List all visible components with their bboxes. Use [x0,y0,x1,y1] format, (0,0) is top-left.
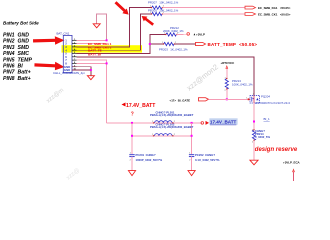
wire gate [209,98,250,100]
svg-text:design reserve: design reserve [255,147,298,153]
wire pin2 GND [77,43,107,45]
svg-text:PC202 CHNG?: PC202 CHNG? [195,153,215,157]
resistor PR212 [163,26,184,36]
svg-text:SMC: SMC [18,51,30,57]
pin numbers tiny [130,6,255,162]
wire pin1 GND [77,39,107,41]
junction pin10 [90,69,92,71]
svg-text:BI_1: BI_1 [264,117,271,121]
wire pin9/10 GND [72,67,91,76]
svg-text:?: ? [131,111,134,117]
junction PL202 left [131,135,133,137]
red arrow annotation 4 [142,16,154,26]
svg-text:EC_SMB_CK1 <50.05>: EC_SMB_CK1 <50.05> [258,13,291,17]
wire PR203 to port [174,43,195,45]
svg-text:BAT_CN1: BAT_CN1 [57,31,70,35]
net label +17.4V_BATT (highlighted) [206,118,238,125]
junction rail right [191,122,193,124]
resistor PR205 [148,8,179,15]
no-ERC circle rail end [201,122,204,125]
svg-text:GND: GND [18,33,30,39]
svg-text:PIN1: PIN1 [3,33,15,39]
ground (PR214) [250,160,258,165]
ground (PC201) [128,171,135,176]
wire pin6 BI to Q drain [77,57,255,96]
wire TEMP branch to PR203 [150,43,164,45]
connector pin numbers [74,39,77,71]
junction pin1 gnd riser [106,39,108,41]
svg-text:+RTCVCC: +RTCVCC [221,61,236,65]
red arrow annotation 1 [33,36,65,45]
svg-text:100K_0402_1%: 100K_0402_1% [232,83,253,87]
power +RTCVCC [221,61,236,78]
svg-text:200K_0402_1%: 200K_0402_1% [163,29,184,33]
capacitor PC202 [189,153,220,171]
pin list [3,33,32,82]
red arrow annotation 3 [115,1,129,14]
junction PL202 right [191,135,193,137]
svg-text:BATT_TEMP <50.05>: BATT_TEMP <50.05> [208,42,258,47]
wire pin5 TEMP [77,35,166,54]
port BI_GATE [170,98,209,103]
junction gate [226,98,228,100]
gate pin mark [248,98,250,100]
junction rail left [131,122,133,124]
svg-text:Batt+: Batt+ [18,76,31,82]
svg-text:1000P_0402_50V?%: 1000P_0402_50V?% [136,158,163,162]
svg-text:BI: BI [18,64,24,70]
svg-text:+3VLP_ECA: +3VLP_ECA [283,161,301,165]
port BATT_TEMP [196,42,258,47]
connector pin names [64,38,70,72]
wire PR212 to +3VLP [177,33,187,35]
port EC_SMB_CK1 [245,13,291,17]
wire pin8 Batt+ [77,62,107,64]
junction BI_1 [253,121,255,123]
no-ERC circle [187,33,190,36]
red annotation +17.4V_BATT [122,103,157,110]
inductor PL202 [150,122,194,136]
svg-text:BATT_BI: BATT_BI [88,52,101,56]
svg-text:Battery Bot Side: Battery Bot Side [3,21,39,26]
svg-text:PR203 1K_0402_1%: PR203 1K_0402_1% [159,48,188,52]
resistor PR207 [148,1,179,10]
resistor PR213 100K [225,78,253,99]
transistor PQ204 [250,94,290,104]
wire Q source down [253,103,255,130]
capacitor PC201 [129,153,162,171]
svg-text:PIN8: PIN8 [3,76,15,82]
wire pin4 SMC net EC_SMB_CK1 [77,14,152,50]
wire right parallel drop [191,123,193,154]
yellow net highlight [62,45,143,52]
svg-text:PBSA-L(1.5)-2D(2X8-800_BABET: PBSA-L(1.5)-2D(2X8-800_BABET [150,113,194,117]
svg-text:EC_SMB_DA1 <50.05>: EC_SMB_DA1 <50.05> [258,6,291,10]
+17.4V_BATT rail [107,122,202,124]
svg-text:PIN3: PIN3 [3,45,15,51]
wire left parallel drop [131,123,133,154]
svg-text:TEMP: TEMP [18,57,33,63]
svg-text:0.1U_0402_50V?%: 0.1U_0402_50V?% [195,158,220,162]
junction pin8 [106,62,108,64]
svg-text:CHLL_C0000BCMN_4pi: CHLL_C0000BCMN_4pi [53,71,85,75]
resistor PR203 [159,42,188,51]
svg-text:PC201 CHNG?: PC201 CHNG? [136,153,156,157]
net label BI_1 [264,117,271,121]
wire: gnd loop top-left [97,14,107,40]
svg-text:PIN4: PIN4 [3,51,15,57]
svg-text:Batt+: Batt+ [18,70,31,76]
svg-text:SMD: SMD [18,45,30,51]
svg-text:0_0402_5%: 0_0402_5% [255,135,270,139]
junction TEMP branch [149,43,151,45]
inductor PL201 [150,110,194,123]
svg-text:PQ204: PQ204 [261,94,270,98]
ground (top-left) [93,24,100,28]
wire PR205 to port [162,13,245,15]
red arrow annotation 2 [34,62,64,70]
svg-text:PIN6: PIN6 [3,64,15,70]
svg-text:17.4V_BATT: 17.4V_BATT [126,103,156,109]
wire pin7 Batt+ [77,60,107,123]
resistor PR214 0 ohm [252,129,270,160]
power +3VLP [194,32,205,36]
svg-text:+3VLP: +3VLP [196,32,205,36]
connector J1 body [63,35,72,72]
svg-text:2N7002K/TrG IN-SOT-23-3: 2N7002K/TrG IN-SOT-23-3 [255,101,290,105]
svg-text:PIN7: PIN7 [3,70,16,76]
svg-text:PIN2: PIN2 [3,39,15,45]
wire pin3 SMD net EC_SMB_DA1 [77,8,152,47]
svg-text:PBSA-L(1.5)-2D(2X8-800_BABET: PBSA-L(1.5)-2D(2X8-800_BABET [150,125,194,129]
svg-text:PIN5: PIN5 [3,57,15,63]
svg-text:PR207 10K_0402_1%: PR207 10K_0402_1% [148,1,179,5]
svg-text:GND: GND [18,39,30,45]
port EC_SMB_DA1 [245,6,291,10]
ground (pins 9-10) [87,76,94,80]
svg-text:17.4V_BATT: 17.4V_BATT [210,120,237,125]
wire PL202 row [132,135,192,137]
wire PR207 to port [162,7,245,9]
power +3VLP_ECA [283,161,301,181]
connector pin stubs [72,40,77,70]
ground (PC202) [188,171,195,176]
svg-text:<17> BI_GATE: <17> BI_GATE [170,98,191,102]
